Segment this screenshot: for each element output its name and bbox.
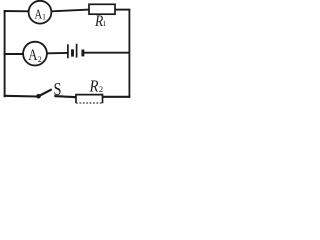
wire top-left segment	[4, 10, 29, 12]
wire top-middle segment	[51, 10, 89, 12]
resistor R2 box left edge	[75, 94, 77, 103]
wire top-right segment	[115, 9, 130, 11]
switch S pivot dot	[36, 94, 41, 99]
battery cell plate long 2	[76, 44, 78, 58]
wire bottom-left segment	[4, 95, 37, 98]
ammeter A1	[29, 1, 52, 24]
resistor R1	[89, 4, 115, 14]
wire middle segment A2 to battery	[47, 52, 68, 54]
wire bottom segment S to R2	[54, 96, 76, 97]
resistor R2 box top edge	[76, 94, 103, 96]
wire bottom-right segment R2 to right rail	[103, 96, 131, 98]
svg-text:A: A	[35, 6, 43, 21]
switch S lever	[39, 89, 52, 96]
resistor R2 box bottom edge (faint dashed)	[76, 102, 103, 104]
left rail wire	[4, 10, 6, 97]
right rail wire	[128, 10, 130, 98]
battery cell plate long 1	[67, 44, 69, 58]
ammeter A2	[23, 42, 47, 66]
svg-text:1: 1	[42, 12, 46, 21]
svg-text:A: A	[28, 47, 38, 64]
wire middle-right segment battery to right rail	[84, 52, 130, 54]
resistor R2 box right edge	[102, 94, 104, 103]
svg-text:2: 2	[38, 55, 42, 64]
svg-text:R: R	[89, 76, 99, 95]
battery cell plate short thick 1	[71, 49, 74, 56]
svg-text:2: 2	[99, 84, 103, 94]
wire middle-left segment	[4, 53, 24, 55]
battery cell plate short thick 2	[81, 50, 84, 57]
svg-text:1: 1	[103, 19, 107, 28]
